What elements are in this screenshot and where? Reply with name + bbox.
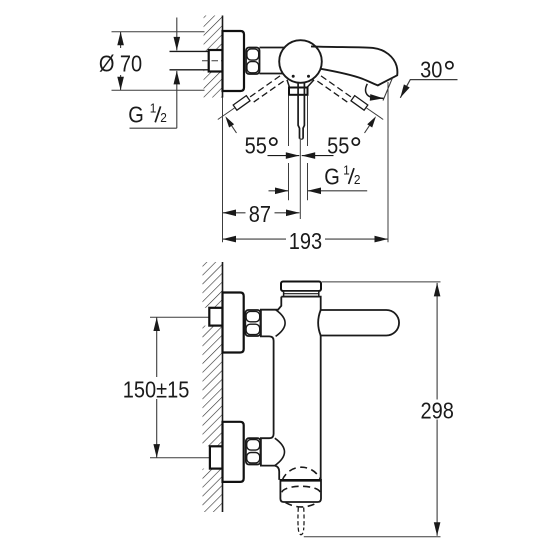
body outline (bottom view): [261, 297, 321, 480]
escutcheon / flange (top view): [223, 31, 245, 91]
wall fitting box (top view): [209, 50, 223, 72]
cartridge cap: [281, 282, 321, 297]
right 55deg leader arrow: [365, 116, 377, 133]
pin dots on ball: [292, 75, 310, 78]
wall (hatched section, top view): [204, 16, 223, 98]
lower hex union nut: [246, 438, 261, 464]
svg-text:2: 2: [354, 172, 361, 187]
30-degree reference slant line: [383, 78, 392, 100]
svg-text:298: 298: [421, 397, 454, 424]
pipe centre line (top view): [202, 60, 222, 62]
upper escutcheon: [223, 293, 244, 353]
inlet pipe in wall (top view): [170, 51, 210, 69]
dimension O70 (escutcheon diameter): [99, 32, 205, 90]
svg-text:193: 193: [289, 228, 322, 255]
handle centre line: [299, 140, 301, 219]
left 55deg leader arrow: [225, 116, 236, 133]
spout (top view): [311, 46, 397, 85]
water stream / mousseur (dashed): [298, 508, 304, 535]
label G1/2 (inlet): [128, 101, 167, 128]
G1/2 extension lines below handle: [289, 96, 308, 201]
svg-text:G: G: [324, 163, 340, 190]
wall (hatched section, bottom view): [203, 262, 223, 512]
G1/2 dimension (handle thread), arrows + underline: [269, 190, 368, 192]
label 55deg left: [245, 132, 277, 159]
spout-tip extension line (right reference of 193): [387, 82, 389, 242]
wall face line (bottom view): [222, 262, 224, 512]
svg-text:150±15: 150±15: [123, 376, 190, 403]
wall face line (top view), extended down as 87/193 extension line: [222, 16, 224, 243]
body tube from nut to ball (top view): [260, 48, 294, 74]
upper supply centre line: [150, 316, 219, 318]
lever handle (bottom view, horizontal): [318, 310, 399, 336]
hidden spout tube (dashed arcs): [282, 467, 321, 492]
label G1/2 (handle): [324, 163, 360, 190]
svg-text:1: 1: [150, 101, 157, 116]
lower supply centre line: [150, 457, 219, 459]
svg-text:Ø 70: Ø 70: [99, 50, 142, 77]
dimension 87: [223, 201, 300, 228]
boss fillet arcs on body face: [275, 310, 285, 466]
svg-text:55: 55: [327, 132, 349, 159]
dimension 298: [304, 282, 454, 537]
svg-text:87: 87: [249, 201, 271, 228]
svg-text:30: 30: [420, 56, 442, 83]
G1/2 leader (inlet thread): [130, 18, 177, 129]
55deg angle arrows at centre line: [268, 155, 334, 157]
svg-text:55: 55: [245, 132, 267, 159]
label 55deg right: [327, 132, 359, 159]
white pipe slots in wall: [196, 308, 210, 469]
dimension 193: [223, 228, 389, 255]
ball body (top view): [279, 40, 322, 83]
upper hex union nut: [245, 310, 260, 336]
svg-text:2: 2: [160, 111, 167, 126]
dimension 150+-15: [123, 318, 190, 458]
lower escutcheon: [223, 422, 244, 482]
swivel arc arrow under spout: [366, 84, 384, 99]
upper wall fitting box: [209, 308, 222, 326]
spout collar band (bottom view): [280, 480, 321, 502]
handle lever (top view, vertical): [287, 80, 314, 139]
svg-text:1: 1: [343, 163, 350, 178]
label 30deg: [420, 56, 453, 83]
lower wall fitting box: [210, 446, 223, 468]
svg-text:G: G: [128, 101, 144, 128]
dashed lever swung left 55deg: [218, 76, 284, 120]
hidden spout bottom (dashed arc below band): [286, 503, 318, 507]
dashed lever swung right 55deg: [317, 76, 383, 120]
30-degree leader line with arrow: [400, 80, 457, 98]
hex union nut (top view): [246, 48, 260, 75]
